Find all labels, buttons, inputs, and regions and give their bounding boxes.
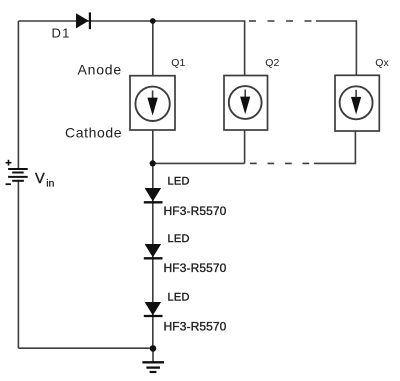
LED 1 (144, 188, 163, 202)
svg-text:LED: LED (168, 176, 190, 188)
svg-text:Q1: Q1 (171, 57, 185, 69)
battery minus sign (6, 183, 11, 185)
current source Q2 (224, 76, 268, 131)
wire Q1 top (152, 21, 154, 76)
svg-text:in: in (46, 178, 54, 190)
current source Q1 (130, 76, 175, 130)
current source Qx (335, 75, 379, 131)
svg-text:LED: LED (168, 291, 190, 303)
wire Q1 bottom (152, 130, 154, 163)
svg-text:Cathode: Cathode (65, 124, 122, 140)
svg-text:D1: D1 (52, 26, 71, 41)
wire LED string (152, 163, 154, 348)
wire bottom bus Q1 to Q2 (153, 162, 245, 164)
svg-text:Q2: Q2 (265, 57, 279, 69)
svg-text:LED: LED (168, 233, 190, 245)
svg-text:Anode: Anode (78, 62, 122, 78)
wire top bus from Vin to Q2 (18, 20, 245, 22)
wire Q2 top (244, 21, 246, 76)
LED 3 (144, 302, 163, 316)
svg-text:HF3-R5570: HF3-R5570 (164, 320, 227, 334)
svg-text:V: V (35, 171, 45, 187)
node junction ground (150, 345, 157, 352)
node junction top (Q1 tap) (150, 18, 156, 24)
diode D1 (76, 12, 90, 29)
battery plus sign (6, 160, 12, 166)
wire top bus dashed Q2 to Qx (249, 20, 316, 22)
LED 2 (144, 244, 163, 258)
wire ground stub (152, 348, 154, 361)
svg-text:Qx: Qx (375, 57, 389, 69)
wire Q2 bottom (244, 130, 246, 163)
svg-text:HF3-R5570: HF3-R5570 (164, 204, 227, 218)
ground (142, 362, 164, 372)
svg-text:HF3-R5570: HF3-R5570 (164, 261, 227, 275)
wire left rail lower (Vin bottom) (17, 182, 19, 349)
wire left rail upper (Vin top) (17, 21, 19, 168)
wire bottom bus dashed Q2 to Qx (250, 162, 314, 164)
battery Vin (8, 169, 28, 181)
wire bottom bus solid into Qx (314, 131, 355, 163)
wire bottom return to ground (18, 347, 153, 349)
node junction LED top (150, 160, 156, 166)
wire top bus solid into Qx corner (316, 21, 356, 75)
